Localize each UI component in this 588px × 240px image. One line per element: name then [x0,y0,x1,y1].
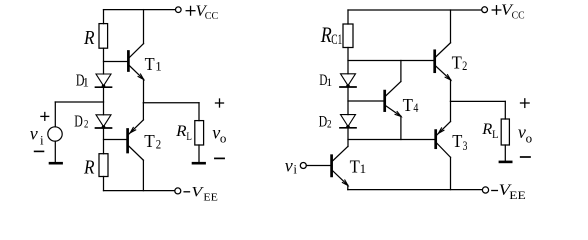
svg-text:v: v [285,155,293,175]
svg-text:D: D [319,113,328,130]
wire: right bottom rail [348,189,483,191]
label + vi [41,113,49,121]
svg-text:T: T [144,131,155,151]
wire: T1 emitter down to output node [143,79,145,102]
svg-text:L: L [492,127,499,141]
wire: output node to RL right [451,100,506,102]
transistor T1 left [128,44,143,80]
wire: T1 base [104,61,128,63]
svg-text:T: T [452,131,462,151]
svg-text:C1: C1 [331,32,342,48]
transistor T1 right [332,147,348,186]
wire: RC1 to D1 right [347,48,349,74]
wire: vi bottom [54,141,56,162]
label -VEE right [492,190,498,192]
svg-text:2: 2 [84,117,88,131]
resistor R1 [99,24,108,49]
wire: vi terminal to T1 base [306,165,330,167]
svg-text:1: 1 [326,75,332,89]
label +VCC left [186,6,195,15]
diode D1 right [340,74,356,88]
wire: vi to diode junction [55,101,103,103]
label +VCC right [492,6,501,15]
source vi circle [48,127,62,141]
svg-text:i: i [293,162,297,177]
svg-text:o: o [526,130,533,145]
wire: node line to T3 base [348,139,434,141]
svg-text:1: 1 [155,59,162,74]
svg-text:R: R [481,121,492,138]
wire: vi top [54,102,56,127]
terminal circle -VEE left [175,188,181,194]
svg-text:2: 2 [327,116,332,130]
diode D2 right [340,115,356,129]
svg-text:2: 2 [462,58,467,73]
ground bar under vi [50,162,62,165]
wire: T3 collector down to rail [450,157,452,189]
svg-text:o: o [220,130,227,145]
ground bar under RL left [193,162,205,165]
wire: right top rail [348,9,482,11]
terminal circle +VCC left [176,7,182,13]
wire: D2 down to T1 collector node [347,129,349,147]
transistor T3 (PNP) [436,122,451,158]
resistor RL left [195,121,204,145]
wire: T2 emitter up to output node [142,103,144,120]
label - output left [215,157,224,159]
diode D1 left [96,74,112,88]
svg-text:i: i [40,132,44,147]
svg-text:CC: CC [205,11,219,22]
terminal circle -VEE right [482,187,488,193]
terminal circle vi right [300,163,306,169]
svg-text:v: v [30,123,38,143]
wire: bias line to T2 base [348,60,434,62]
transistor T2 left (PNP) [128,120,144,160]
svg-text:R: R [175,123,187,140]
resistor R2 [99,154,108,177]
label + output left [216,99,224,107]
ground bar under RL right [500,161,511,164]
label - vi [35,150,44,152]
svg-text:L: L [186,129,192,143]
svg-text:T: T [350,156,360,176]
transistor T2 right [435,43,451,80]
svg-text:4: 4 [413,100,418,115]
transistor T4 [385,82,401,117]
diode D2 left [96,115,112,129]
svg-text:2: 2 [156,137,161,152]
wire: R1 to D1 [103,48,105,74]
wire: left top rail [104,9,176,11]
svg-text:3: 3 [463,138,468,153]
wire: T1 collector up [143,10,145,44]
wire: rail to RC1 [347,10,349,24]
svg-text:T: T [452,52,462,72]
svg-text:CC: CC [512,10,525,21]
wire: T2 collector down to rail [142,160,144,190]
svg-text:T: T [145,54,155,74]
resistor RL right [501,119,509,145]
terminal circle +VCC right [482,7,488,13]
wire: T4 emitter down to node line [400,116,402,139]
wire: D2 to resistor R2 [103,129,105,154]
label + output right [521,99,530,108]
wire: output node to RL left [143,102,199,104]
svg-text:EE: EE [203,192,218,203]
label -VEE left [184,191,189,193]
svg-text:1: 1 [360,161,367,176]
wire: T4 collector up to bias line [400,61,402,82]
wire: T2 emitter down to output node [450,80,452,102]
wire: left bottom rail [104,190,175,192]
wire: rail to resistor R1 [103,10,105,24]
svg-text:T: T [403,95,413,115]
svg-text:D: D [74,111,83,130]
svg-text:1: 1 [83,75,89,89]
label - output right [521,156,530,158]
wire: D1 to D2 right [347,88,349,115]
resistor RC1 [343,24,353,48]
wire: T3 emitter up to output node [450,101,452,121]
wire: T4 base [348,100,383,102]
wire: T2 base [104,139,127,141]
svg-text:R: R [83,27,94,49]
svg-text:EE: EE [509,190,526,202]
wire: RL to ground left [198,145,200,162]
wire: D1 to D2 [103,88,105,115]
svg-text:R: R [83,156,94,178]
wire: RL right to ground [504,145,506,161]
wire: T2 collector up to rail [450,10,452,43]
wire: R2 to bottom rail [103,177,105,191]
wire: T1 emitter to rail [347,185,349,189]
